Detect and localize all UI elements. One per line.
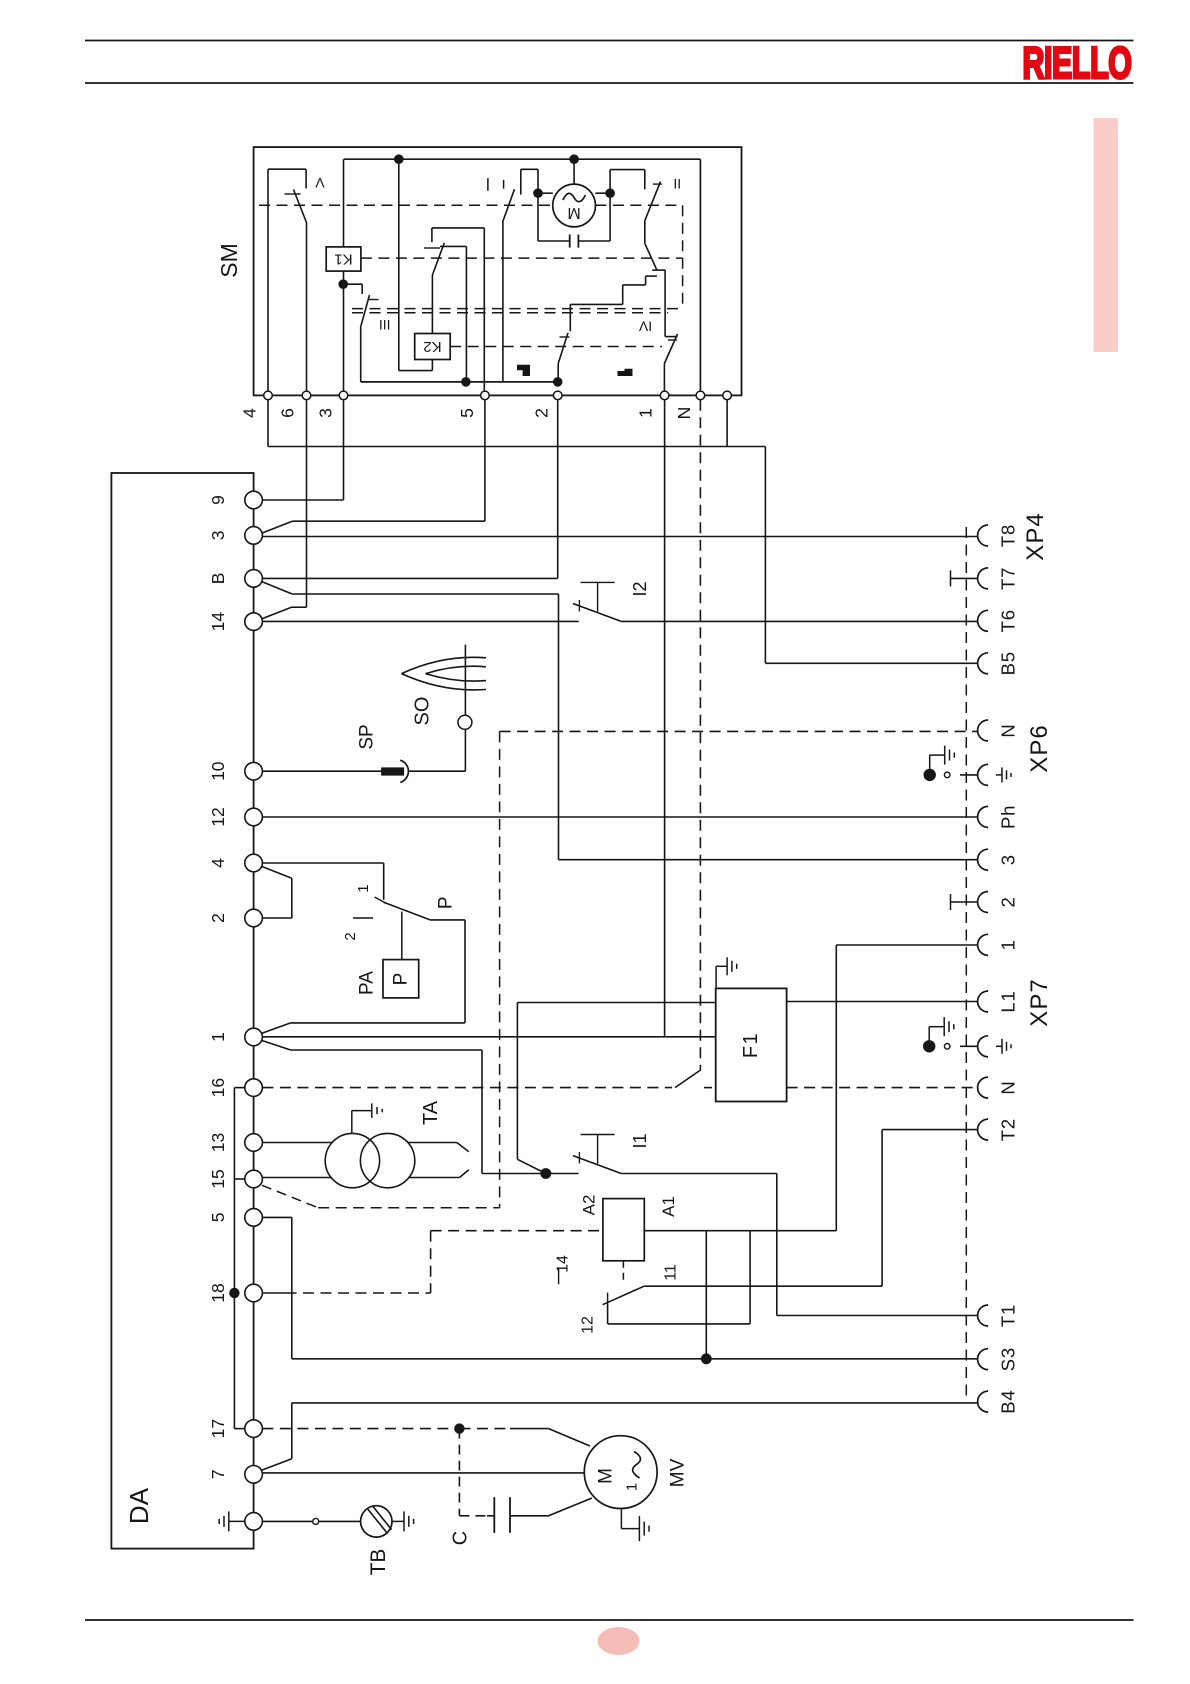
svg-text:N: N: [998, 723, 1019, 737]
svg-text:XP7: XP7: [1026, 978, 1053, 1026]
svg-text:IV: IV: [638, 319, 652, 335]
svg-text:TA: TA: [420, 1100, 442, 1125]
svg-text:2: 2: [532, 408, 552, 418]
svg-text:4: 4: [208, 858, 228, 868]
svg-text:T7: T7: [998, 567, 1019, 590]
svg-text:XP6: XP6: [1026, 724, 1053, 772]
svg-text:S3: S3: [998, 1347, 1019, 1371]
svg-text:RIELLO: RIELLO: [1022, 40, 1131, 89]
svg-text:SM: SM: [216, 243, 242, 278]
svg-text:1: 1: [636, 408, 656, 418]
svg-text:N: N: [674, 407, 694, 420]
svg-text:C: C: [450, 1531, 472, 1545]
svg-text:6: 6: [278, 408, 298, 418]
svg-text:12: 12: [580, 1316, 597, 1334]
svg-text:II: II: [673, 176, 681, 192]
svg-text:I1: I1: [630, 1133, 650, 1148]
svg-text:B5: B5: [998, 651, 1019, 675]
svg-text:Ph: Ph: [998, 805, 1019, 829]
svg-text:16: 16: [208, 1078, 228, 1097]
svg-text:15: 15: [208, 1169, 228, 1188]
svg-text:2: 2: [208, 913, 228, 923]
svg-text:K2: K2: [423, 338, 441, 355]
svg-text:18: 18: [208, 1283, 228, 1302]
svg-text:7: 7: [208, 1469, 228, 1479]
svg-text:M: M: [596, 1468, 617, 1484]
svg-text:10: 10: [208, 761, 228, 781]
svg-text:DA: DA: [124, 1487, 154, 1524]
svg-text:9: 9: [208, 495, 228, 505]
svg-text:T8: T8: [998, 524, 1019, 547]
svg-text:B4: B4: [998, 1389, 1019, 1413]
svg-text:17: 17: [208, 1419, 228, 1438]
svg-text:12: 12: [208, 807, 228, 826]
svg-text:K1: K1: [334, 251, 352, 268]
svg-text:T1: T1: [998, 1304, 1019, 1327]
svg-text:2: 2: [998, 896, 1019, 907]
svg-text:3: 3: [316, 408, 336, 418]
svg-text:III: III: [379, 317, 391, 333]
svg-text:T6: T6: [998, 609, 1019, 632]
svg-text:1: 1: [208, 1032, 228, 1042]
svg-text:N: N: [998, 1081, 1019, 1095]
svg-text:I2: I2: [630, 581, 650, 596]
svg-text:14: 14: [208, 612, 228, 632]
svg-text:T2: T2: [998, 1118, 1019, 1141]
svg-text:5: 5: [208, 1213, 228, 1223]
svg-text:SP: SP: [357, 724, 378, 749]
svg-text:B: B: [208, 573, 228, 585]
svg-text:3: 3: [998, 854, 1019, 865]
svg-text:L1: L1: [998, 990, 1019, 1012]
svg-text:MV: MV: [668, 1458, 689, 1487]
svg-text:PA: PA: [356, 971, 377, 995]
svg-text:P: P: [391, 973, 412, 986]
svg-text:M: M: [567, 204, 580, 221]
svg-text:14: 14: [555, 1255, 572, 1273]
svg-text:1: 1: [624, 1483, 641, 1491]
svg-text:A2: A2: [580, 1195, 599, 1216]
svg-text:2: 2: [342, 932, 359, 940]
svg-text:11: 11: [663, 1264, 680, 1281]
svg-text:5: 5: [457, 408, 477, 418]
svg-text:XP4: XP4: [1022, 512, 1049, 560]
svg-text:4: 4: [240, 408, 260, 418]
svg-text:A1: A1: [659, 1196, 678, 1217]
svg-text:TB: TB: [367, 1549, 390, 1576]
svg-text:13: 13: [208, 1133, 228, 1152]
svg-text:SO: SO: [412, 697, 434, 726]
svg-text:V: V: [315, 175, 325, 191]
svg-text:1: 1: [998, 939, 1019, 950]
svg-text:3: 3: [208, 531, 228, 541]
svg-text:1: 1: [355, 884, 372, 892]
svg-text:F1: F1: [740, 1032, 762, 1058]
svg-text:P: P: [436, 896, 457, 909]
